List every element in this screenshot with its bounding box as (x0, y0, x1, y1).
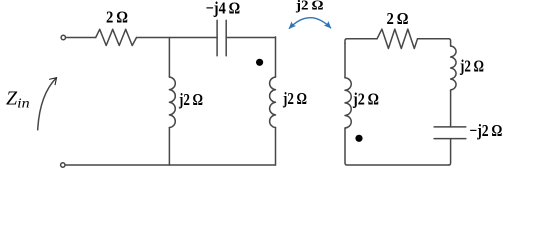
arrow Z_in (curved) (38, 78, 57, 130)
inductor L2 j2ohm (coupled, bumps left) (270, 77, 276, 128)
terminal T1 (top input) (61, 35, 65, 39)
wire top-left lead (66, 37, 96, 39)
wire top-right corner of right circuit (418, 39, 451, 46)
svg-text:j2 Ω: j2 Ω (352, 90, 379, 109)
wire right vertical lower (275, 128, 277, 166)
wire L4 to capacitor C2 (450, 90, 452, 127)
svg-text:j2 Ω: j2 Ω (295, 0, 324, 13)
wire C1 to top-right corner (226, 37, 275, 39)
inductor L4 j2ohm (right side, bumps right) (451, 46, 456, 90)
wire middle branch upper (168, 38, 170, 78)
terminal T2 (bottom input) (61, 163, 65, 167)
inductor L1 j2ohm (middle branch, bumps right) (169, 77, 175, 128)
svg-text:2 Ω: 2 Ω (106, 8, 128, 27)
wire bottom of left circuit (65, 164, 275, 166)
wire left vertical upper of right circuit (344, 43, 346, 77)
svg-text:j2 Ω: j2 Ω (282, 89, 307, 108)
svg-text:j2 Ω: j2 Ω (459, 56, 484, 75)
wire right vertical upper (to L2) (275, 37, 277, 77)
svg-text:−j2 Ω: −j2 Ω (469, 121, 502, 140)
svg-text:j2 Ω: j2 Ω (178, 90, 203, 109)
wire bottom of right circuit (345, 128, 449, 165)
capacitor C1 -j4ohm plates (216, 20, 218, 56)
coupling arrow (blue, double headed) (289, 18, 331, 29)
wire R1 to capacitor C1 (through node at x=169.4) (137, 37, 218, 39)
svg-text:2 Ω: 2 Ω (387, 9, 409, 28)
resistor R2 2ohm (377, 29, 418, 48)
inductor L3 j2ohm (left side, bumps right) (345, 78, 351, 128)
wire C2 to bottom-right corner (449, 139, 451, 165)
capacitor C2 -j2ohm plates (434, 126, 466, 128)
wire middle branch lower (168, 128, 170, 166)
resistor R1 2ohm (96, 29, 137, 45)
wire top-left corner of right circuit (345, 39, 377, 44)
svg-text:−j4 Ω: −j4 Ω (206, 0, 241, 17)
svg-text:Zin: Zin (6, 88, 30, 111)
polarity dot of L3 (355, 135, 362, 142)
polarity dot of L2 (256, 59, 263, 66)
